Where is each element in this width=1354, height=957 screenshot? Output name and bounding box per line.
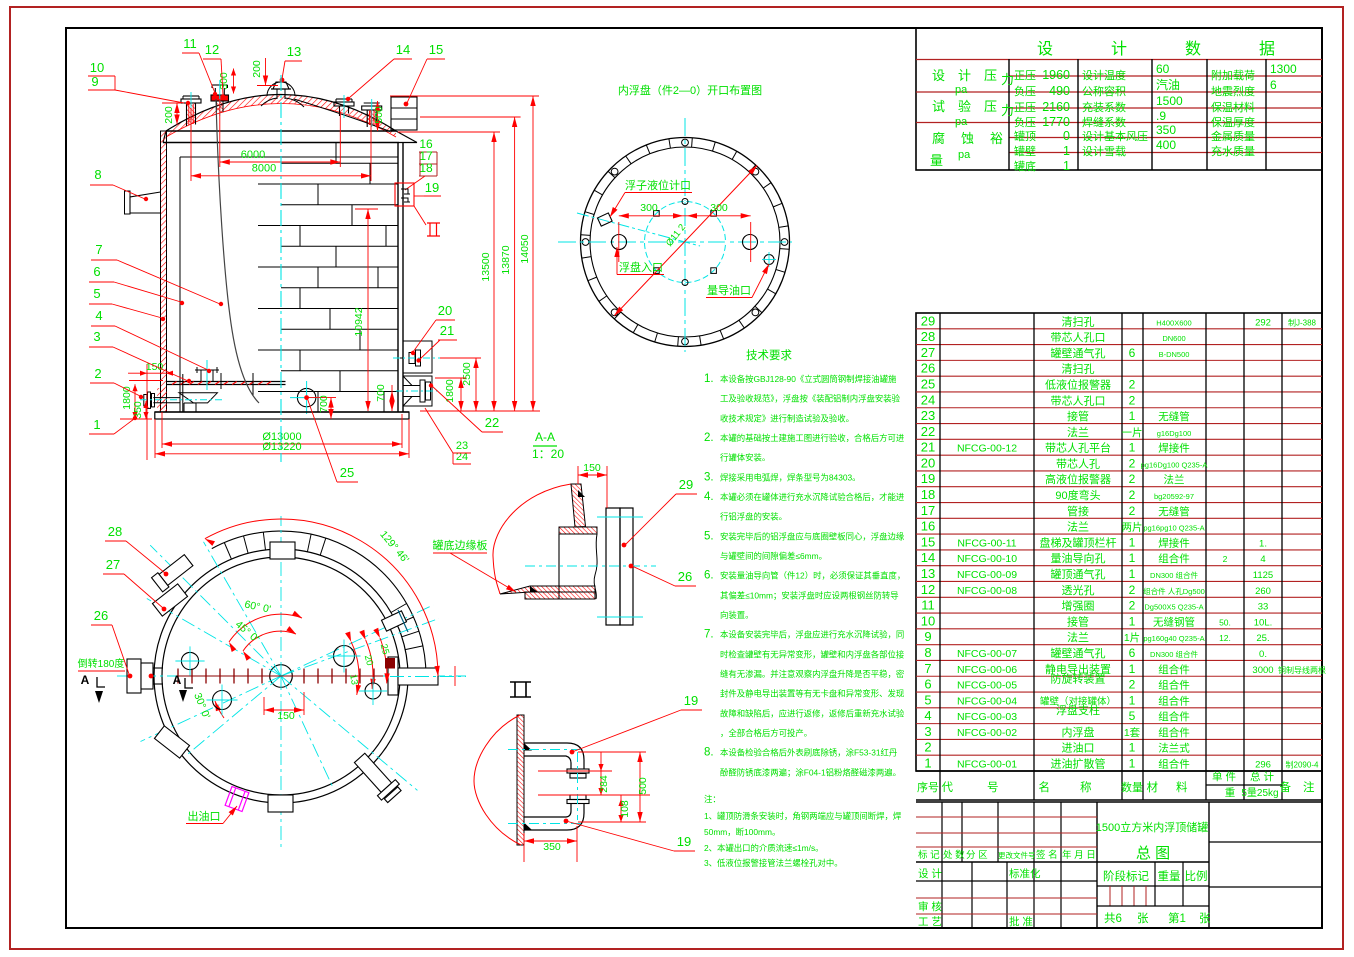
svg-text:18: 18 xyxy=(419,161,433,175)
svg-text:7: 7 xyxy=(95,242,102,257)
svg-text:0: 0 xyxy=(1063,129,1070,143)
svg-text:注：: 注： xyxy=(704,794,721,804)
svg-text:700: 700 xyxy=(375,384,387,402)
svg-text:负压: 负压 xyxy=(1014,115,1036,129)
svg-text:带芯人孔平台: 带芯人孔平台 xyxy=(1045,441,1111,455)
svg-text:工 艺: 工 艺 xyxy=(918,916,942,928)
svg-text:6: 6 xyxy=(1129,346,1136,360)
svg-text:标 记: 标 记 xyxy=(918,849,940,861)
svg-text:增强圈: 增强圈 xyxy=(1062,599,1095,613)
svg-text:组合件: 组合件 xyxy=(1158,552,1190,565)
svg-text:284: 284 xyxy=(598,775,610,793)
svg-text:安装量油导向管（件12）时，必须保证其垂直度，: 安装量油导向管（件12）时，必须保证其垂直度， xyxy=(720,571,905,581)
detail mark II xyxy=(427,223,440,236)
svg-text:力: 力 xyxy=(1001,72,1014,87)
svg-text:1125: 1125 xyxy=(1253,570,1273,581)
dim 500 nozzle15 xyxy=(377,101,379,131)
svg-text:重量: 重量 xyxy=(1158,869,1181,883)
svg-text:2: 2 xyxy=(1129,504,1136,518)
svg-text:保温厚度: 保温厚度 xyxy=(1211,115,1255,129)
red diagonal line xyxy=(614,165,757,315)
svg-text:9: 9 xyxy=(924,629,931,644)
svg-text:量油导向孔: 量油导向孔 xyxy=(1051,551,1106,565)
svg-text:本罐的基础按土建施工图进行验收，合格后方可进: 本罐的基础按土建施工图进行验收，合格后方可进 xyxy=(720,433,905,443)
svg-text:4: 4 xyxy=(95,308,102,323)
svg-text:NFCG-00-01: NFCG-00-01 xyxy=(957,759,1017,771)
svg-text:g16Dg100: g16Dg100 xyxy=(1157,429,1192,438)
svg-text:2160: 2160 xyxy=(1042,100,1070,114)
svg-text:1500立方米内浮顶储罐: 1500立方米内浮顶储罐 xyxy=(1096,820,1208,834)
svg-text:15: 15 xyxy=(429,42,443,57)
svg-text:组合件: 组合件 xyxy=(1158,710,1190,723)
svg-text:700: 700 xyxy=(318,395,330,413)
svg-text:300: 300 xyxy=(218,72,230,90)
BOM parts list table xyxy=(916,313,1322,771)
angle dim 25 xyxy=(380,638,387,683)
roof nozzle 15 xyxy=(367,110,376,125)
svg-text:焊缝系数: 焊缝系数 xyxy=(1082,115,1126,129)
svg-text:6.: 6. xyxy=(704,570,714,582)
roof nozzle 14 xyxy=(339,106,341,116)
svg-text:25: 25 xyxy=(378,643,391,656)
svg-text:单 件: 单 件 xyxy=(1212,771,1236,783)
dim 284 xyxy=(600,752,602,795)
svg-text:Ø11 2: Ø11 2 xyxy=(664,222,688,249)
svg-text:A: A xyxy=(81,673,90,687)
dim D13000 xyxy=(161,412,163,448)
svg-text:29: 29 xyxy=(679,477,693,492)
angle dim 30 xyxy=(215,701,224,718)
upper-left nozzle 28 xyxy=(152,553,195,592)
svg-text:与罐壁间的间隙偏差≤6mm。: 与罐壁间的间隙偏差≤6mm。 xyxy=(720,551,827,561)
svg-text:制2090-4: 制2090-4 xyxy=(1286,760,1319,770)
svg-text:组合件: 组合件 xyxy=(1158,694,1190,707)
svg-text:接管: 接管 xyxy=(1067,614,1089,628)
top curb angle ring xyxy=(166,130,396,132)
svg-text:充装系数: 充装系数 xyxy=(1082,100,1126,114)
svg-text:13: 13 xyxy=(287,44,301,59)
svg-text:名称: 名称 xyxy=(1039,780,1122,794)
angle dim 20 xyxy=(366,640,373,689)
dim 13870 xyxy=(420,116,521,118)
svg-text:1、罐顶防滑条安装时，角钢两端应与罐顶间断焊，焊: 1、罐顶防滑条安装时，角钢两端应与罐顶间断焊，焊 xyxy=(704,811,902,821)
svg-text:27: 27 xyxy=(106,557,120,572)
svg-text:33: 33 xyxy=(1258,602,1269,613)
svg-text:5: 5 xyxy=(1129,709,1136,723)
svg-text:13870: 13870 xyxy=(500,245,512,274)
svg-text:1: 1 xyxy=(1129,741,1136,755)
flange rings xyxy=(606,508,620,625)
svg-text:本罐必须在罐体进行充水沉降试验合格后，才能进: 本罐必须在罐体进行充水沉降试验合格后，才能进 xyxy=(720,492,905,502)
svg-text:3、低液位报警接管法兰螺栓孔对中。: 3、低液位报警接管法兰螺栓孔对中。 xyxy=(704,858,843,868)
guide pole curve xyxy=(216,99,259,403)
svg-text:4.: 4. xyxy=(704,491,714,503)
svg-text:2: 2 xyxy=(1129,393,1136,407)
svg-text:2: 2 xyxy=(1129,488,1136,502)
internal floating deck xyxy=(167,381,286,383)
svg-text:年 月 日: 年 月 日 xyxy=(1062,849,1096,861)
svg-text:审 核: 审 核 xyxy=(918,900,942,913)
svg-text:签 名: 签 名 xyxy=(1036,849,1058,861)
dim 1800 left xyxy=(134,384,136,419)
svg-text:500: 500 xyxy=(373,106,385,124)
nozzle 20-21 xyxy=(403,341,432,373)
svg-text:NFCG-00-07: NFCG-00-07 xyxy=(957,648,1017,660)
svg-text:7.: 7. xyxy=(704,629,714,641)
svg-text:共6: 共6 xyxy=(1104,912,1122,925)
svg-text:工及验收规范》，浮盘按《装配铝制内浮盘安装验: 工及验收规范》，浮盘按《装配铝制内浮盘安装验 xyxy=(720,394,901,404)
inlet nozzle parts 1-2 xyxy=(157,388,167,411)
svg-text:150: 150 xyxy=(583,462,601,474)
svg-text:1套: 1套 xyxy=(1124,726,1141,739)
svg-text:19: 19 xyxy=(677,834,691,849)
svg-text:NFCG-00-06: NFCG-00-06 xyxy=(957,664,1017,676)
manhole nozzle 8 xyxy=(130,192,161,213)
svg-text:本设备按GBJ128-90《立式圆筒钢制焊接油罐施: 本设备按GBJ128-90《立式圆筒钢制焊接油罐施 xyxy=(720,374,897,384)
svg-text:A-A: A-A xyxy=(535,430,555,444)
dim 8000 xyxy=(190,108,192,181)
shell plate courses xyxy=(281,162,398,164)
svg-text:2: 2 xyxy=(1129,678,1136,692)
svg-text:14050: 14050 xyxy=(519,234,531,263)
tank bottom plan view xyxy=(162,557,400,795)
svg-text:标准化: 标准化 xyxy=(1009,867,1041,880)
svg-text:，全部合格后方可投产。: ，全部合格后方可投产。 xyxy=(720,728,812,738)
dim 150 bottom circle xyxy=(263,697,265,715)
svg-text:罐底: 罐底 xyxy=(1014,159,1036,173)
svg-text:pa: pa xyxy=(955,84,968,96)
svg-text:时检查罐壁有无异常变形，罐壁和内浮盘各部位接: 时检查罐壁有无异常变形，罐壁和内浮盘各部位接 xyxy=(720,649,905,659)
svg-text:NFCG-00-11: NFCG-00-11 xyxy=(957,537,1016,549)
svg-text:11: 11 xyxy=(921,598,935,613)
svg-text:bg20592-97: bg20592-97 xyxy=(1154,492,1194,501)
svg-text:DN300 组合件: DN300 组合件 xyxy=(1150,570,1198,580)
svg-text:组合件: 组合件 xyxy=(1158,663,1190,676)
svg-text:20: 20 xyxy=(438,303,452,318)
svg-text:1: 1 xyxy=(1129,662,1136,676)
svg-text:13: 13 xyxy=(347,673,360,685)
svg-text:7: 7 xyxy=(924,661,931,676)
svg-text:材料: 材料 xyxy=(1147,780,1206,794)
svg-text:总 计: 总 计 xyxy=(1250,770,1274,783)
svg-text:6: 6 xyxy=(1129,646,1136,660)
svg-text:清扫孔: 清扫孔 xyxy=(1062,315,1095,328)
svg-text:法兰: 法兰 xyxy=(1067,425,1089,439)
svg-text:6: 6 xyxy=(924,677,931,692)
svg-text:2500: 2500 xyxy=(461,362,473,386)
roof nozzle 11-12 xyxy=(217,101,224,112)
svg-text:组合件: 组合件 xyxy=(1158,758,1190,771)
svg-text:3000: 3000 xyxy=(1252,665,1273,676)
svg-text:12: 12 xyxy=(205,42,219,57)
svg-text:296: 296 xyxy=(1255,760,1271,771)
svg-text:罐顶通气孔: 罐顶通气孔 xyxy=(1051,567,1106,581)
svg-text:1片: 1片 xyxy=(1124,631,1140,644)
svg-text:24: 24 xyxy=(921,392,935,407)
svg-text:12.: 12. xyxy=(1219,633,1231,643)
svg-text:400: 400 xyxy=(1156,138,1176,152)
svg-text:罐壁通气孔: 罐壁通气孔 xyxy=(1051,346,1106,360)
svg-text:一片: 一片 xyxy=(1122,426,1143,439)
svg-text:NFCG-00-09: NFCG-00-09 xyxy=(957,569,1017,581)
svg-text:带芯人孔口: 带芯人孔口 xyxy=(1051,330,1106,344)
center opening xyxy=(270,665,293,688)
small deck openings on dashed circle xyxy=(682,199,688,205)
svg-text:15: 15 xyxy=(921,534,935,549)
svg-text:封件及静电导出装置等有无卡盘和异常变形、发现: 封件及静电导出装置等有无卡盘和异常变形、发现 xyxy=(720,689,904,699)
svg-text:200: 200 xyxy=(251,60,263,78)
svg-text:50.: 50. xyxy=(1219,617,1231,627)
dim 300 300 xyxy=(618,222,620,262)
svg-text:收技术规定》进行制造试验及验收。: 收技术规定》进行制造试验及验收。 xyxy=(720,413,854,423)
svg-text:350: 350 xyxy=(132,401,144,419)
dim 13500 xyxy=(398,131,500,133)
svg-text:批 准: 批 准 xyxy=(1009,915,1033,928)
dim 6000 xyxy=(219,99,221,167)
svg-text:向装置。: 向装置。 xyxy=(720,610,754,620)
svg-text:进油扩散管: 进油扩散管 xyxy=(1051,757,1106,771)
svg-text:设计基本风压: 设计基本风压 xyxy=(1082,129,1148,143)
svg-text:2: 2 xyxy=(1129,377,1136,391)
svg-text:20: 20 xyxy=(921,455,935,470)
svg-text:pg160g40 Q235-A: pg160g40 Q235-A xyxy=(1143,634,1204,643)
svg-text:19: 19 xyxy=(921,471,935,486)
svg-text:17: 17 xyxy=(921,503,935,518)
svg-text:3.: 3. xyxy=(704,471,714,483)
svg-text:6: 6 xyxy=(1270,78,1277,92)
bottom plates hatched xyxy=(500,586,595,594)
svg-text:法兰: 法兰 xyxy=(1067,630,1089,644)
svg-text:出油口: 出油口 xyxy=(188,809,221,823)
svg-text:NFCG-00-10: NFCG-00-10 xyxy=(957,553,1017,565)
svg-text:19: 19 xyxy=(425,180,439,195)
svg-text:第1: 第1 xyxy=(1168,911,1186,925)
svg-text:张: 张 xyxy=(1199,912,1211,925)
dim 200 roof left xyxy=(176,103,178,125)
right nozzle pipe xyxy=(388,657,398,695)
svg-text:16: 16 xyxy=(921,519,935,534)
svg-text:无缝管: 无缝管 xyxy=(1158,410,1190,423)
svg-text:负压: 负压 xyxy=(1014,84,1036,98)
dim 350 xyxy=(523,833,525,862)
dim 1800 right xyxy=(435,377,466,379)
svg-text:5量25kg: 5量25kg xyxy=(1241,787,1278,799)
svg-text:组合件: 组合件 xyxy=(1158,726,1190,739)
svg-text:B-DN500: B-DN500 xyxy=(1159,350,1190,359)
svg-text:2: 2 xyxy=(1129,472,1136,486)
svg-text:13500: 13500 xyxy=(480,252,492,281)
svg-text:防旋转装置: 防旋转装置 xyxy=(1051,672,1106,686)
svg-text:带芯人孔: 带芯人孔 xyxy=(1056,456,1100,470)
angle dim 129 46 xyxy=(205,519,438,676)
svg-text:2: 2 xyxy=(1129,599,1136,613)
tank bottom and foundation xyxy=(155,411,409,413)
svg-text:10942: 10942 xyxy=(353,307,365,336)
svg-text:22: 22 xyxy=(921,424,935,439)
svg-text:附加载荷: 附加载荷 xyxy=(1211,68,1255,82)
lower flange xyxy=(570,795,586,800)
svg-text:设计温度: 设计温度 xyxy=(1082,68,1126,82)
svg-text:300: 300 xyxy=(710,202,728,214)
svg-text:1: 1 xyxy=(1063,144,1070,158)
II mark xyxy=(510,682,531,697)
svg-text:300: 300 xyxy=(640,202,658,214)
svg-text:透光孔: 透光孔 xyxy=(1062,583,1095,597)
svg-text:6: 6 xyxy=(93,264,100,279)
svg-text:焊接采用电弧焊，焊条型号为84303。: 焊接采用电弧焊，焊条型号为84303。 xyxy=(720,472,861,482)
svg-text:14: 14 xyxy=(396,42,410,57)
svg-text:技术要求: 技术要求 xyxy=(746,349,792,362)
svg-text:2: 2 xyxy=(94,366,101,381)
detail box 19 xyxy=(395,183,414,206)
edge plate ticks xyxy=(224,543,231,560)
top nozzle tab xyxy=(270,542,295,559)
svg-text:总 图: 总 图 xyxy=(1136,845,1170,862)
svg-text:27: 27 xyxy=(921,345,935,360)
svg-text:无缝钢管: 无缝钢管 xyxy=(1153,615,1195,628)
dim 700 center xyxy=(307,397,336,399)
svg-text:盘梯及罐顶栏杆: 盘梯及罐顶栏杆 xyxy=(1040,535,1117,549)
lower pipe elbow xyxy=(524,804,571,817)
svg-text:接管: 接管 xyxy=(1067,409,1089,423)
svg-text:缝有无渗漏。并注意观察内浮盘升降是否平稳，密: 缝有无渗漏。并注意观察内浮盘升降是否平稳，密 xyxy=(720,669,904,679)
svg-text:NFCG-00-12: NFCG-00-12 xyxy=(957,443,1017,455)
svg-text:18: 18 xyxy=(921,487,935,502)
svg-text:浮子液位计口: 浮子液位计口 xyxy=(625,178,691,192)
svg-text:350: 350 xyxy=(543,841,561,853)
svg-text:进油口: 进油口 xyxy=(1062,741,1095,755)
svg-text:清扫孔: 清扫孔 xyxy=(1062,363,1095,376)
svg-text:1.: 1. xyxy=(704,373,714,385)
nozzle 22-24 xyxy=(403,376,432,406)
svg-text:22: 22 xyxy=(485,415,499,430)
svg-text:8: 8 xyxy=(924,645,931,660)
dim 350 left xyxy=(145,401,147,419)
roof center nozzle 13 xyxy=(273,82,289,89)
svg-text:1300: 1300 xyxy=(1270,62,1297,76)
svg-text:260: 260 xyxy=(1255,586,1271,597)
svg-text:11: 11 xyxy=(183,36,197,51)
float gauge opening tilted xyxy=(597,213,612,226)
svg-text:2: 2 xyxy=(1223,554,1228,564)
inner dashed circle xyxy=(645,202,726,283)
right shell wall xyxy=(397,143,399,413)
magenta outlet nozzle xyxy=(225,787,249,812)
svg-text:管接: 管接 xyxy=(1067,504,1089,518)
svg-text:组合件: 组合件 xyxy=(1158,679,1190,692)
deck support legs xyxy=(182,374,184,412)
roof platform box 15 xyxy=(391,97,417,130)
dim 10942 xyxy=(355,208,378,210)
svg-text:比例: 比例 xyxy=(1185,869,1208,883)
svg-text:A: A xyxy=(173,673,182,687)
radial centerlines cyan xyxy=(281,675,466,677)
svg-text:.9: .9 xyxy=(1156,109,1166,123)
svg-text:低液位报警器: 低液位报警器 xyxy=(1045,377,1111,391)
svg-text:1：20: 1：20 xyxy=(532,447,564,461)
svg-text:1: 1 xyxy=(1063,159,1070,173)
svg-text:5: 5 xyxy=(93,286,100,301)
svg-text:26: 26 xyxy=(921,361,935,376)
svg-text:量: 量 xyxy=(930,153,943,168)
interior deck circles xyxy=(181,652,198,669)
svg-text:350: 350 xyxy=(1156,123,1176,137)
svg-text:29: 29 xyxy=(921,313,935,328)
svg-text:NFCG-00-05: NFCG-00-05 xyxy=(957,680,1017,692)
angle dim 45 xyxy=(243,631,296,651)
svg-text:129° 46': 129° 46' xyxy=(377,529,411,566)
title block xyxy=(916,801,1322,803)
upper-right tab xyxy=(381,611,406,631)
svg-text:带芯人孔口: 带芯人孔口 xyxy=(1051,393,1106,407)
svg-text:21: 21 xyxy=(921,440,935,455)
red break curve xyxy=(493,484,571,594)
svg-text:1: 1 xyxy=(1129,614,1136,628)
svg-text:4: 4 xyxy=(1260,554,1265,565)
svg-text:序号: 序号 xyxy=(917,780,939,794)
dim 700 right xyxy=(391,385,393,411)
svg-text:1: 1 xyxy=(924,756,931,771)
svg-text:8.: 8. xyxy=(704,747,714,759)
svg-text:罐顶: 罐顶 xyxy=(1014,130,1036,143)
inlet diffuser pipe xyxy=(179,393,217,403)
svg-text:5.: 5. xyxy=(704,530,714,542)
svg-text:pa: pa xyxy=(955,116,968,128)
svg-text:数量: 数量 xyxy=(1121,781,1143,794)
svg-text:其偏差≤10mm；安装浮盘时应设两根钢丝防转导: 其偏差≤10mm；安装浮盘时应设两根钢丝防转导 xyxy=(720,590,899,600)
svg-text:设计数据: 设计数据 xyxy=(1037,40,1333,58)
svg-text:组合件 人孔Dg500: 组合件 人孔Dg500 xyxy=(1143,586,1205,596)
svg-text:保温材料: 保温材料 xyxy=(1211,100,1255,114)
svg-text:重: 重 xyxy=(1225,786,1236,799)
svg-text:4: 4 xyxy=(924,708,931,723)
svg-text:正压: 正压 xyxy=(1014,69,1036,82)
weld triangles xyxy=(578,490,585,497)
svg-text:23: 23 xyxy=(921,408,935,423)
svg-text:90度弯头: 90度弯头 xyxy=(1055,488,1100,502)
svg-text:1960: 1960 xyxy=(1042,68,1070,82)
dim D13220 xyxy=(154,419,156,458)
svg-text:金属质量: 金属质量 xyxy=(1211,129,1255,143)
break curve red xyxy=(474,715,521,845)
svg-text:25: 25 xyxy=(921,376,935,391)
svg-text:1: 1 xyxy=(1129,693,1136,707)
svg-text:公称容积: 公称容积 xyxy=(1082,84,1126,98)
svg-text:倒转180度: 倒转180度 xyxy=(78,657,125,670)
bottom edge plate arc xyxy=(212,531,426,676)
svg-text:Ø13220: Ø13220 xyxy=(262,441,301,453)
svg-text:焊接件: 焊接件 xyxy=(1158,536,1190,549)
svg-text:pg16pg10 Q235-A: pg16pg10 Q235-A xyxy=(1143,524,1204,533)
upper flange xyxy=(567,769,589,773)
svg-text:6000: 6000 xyxy=(241,149,265,161)
svg-text:分 区: 分 区 xyxy=(966,850,988,861)
svg-text:pg16Dg100 Q235-A: pg16Dg100 Q235-A xyxy=(1141,460,1208,469)
angle dim 60 xyxy=(229,614,302,642)
wall strip hatched xyxy=(517,715,524,845)
nozzle pipe xyxy=(558,534,560,599)
svg-text:汽油: 汽油 xyxy=(1156,77,1180,92)
svg-text:1770: 1770 xyxy=(1042,115,1070,129)
tank centerline xyxy=(280,75,282,462)
svg-text:高液位报警器: 高液位报警器 xyxy=(1045,472,1111,486)
svg-text:内浮盘: 内浮盘 xyxy=(1062,725,1095,739)
lower-left tab xyxy=(154,726,189,758)
svg-text:无缝管: 无缝管 xyxy=(1158,505,1190,518)
svg-text:浮盘支柱: 浮盘支柱 xyxy=(1056,703,1100,717)
svg-text:罐底边缘板: 罐底边缘板 xyxy=(433,538,488,552)
svg-text:0.: 0. xyxy=(1259,649,1267,660)
